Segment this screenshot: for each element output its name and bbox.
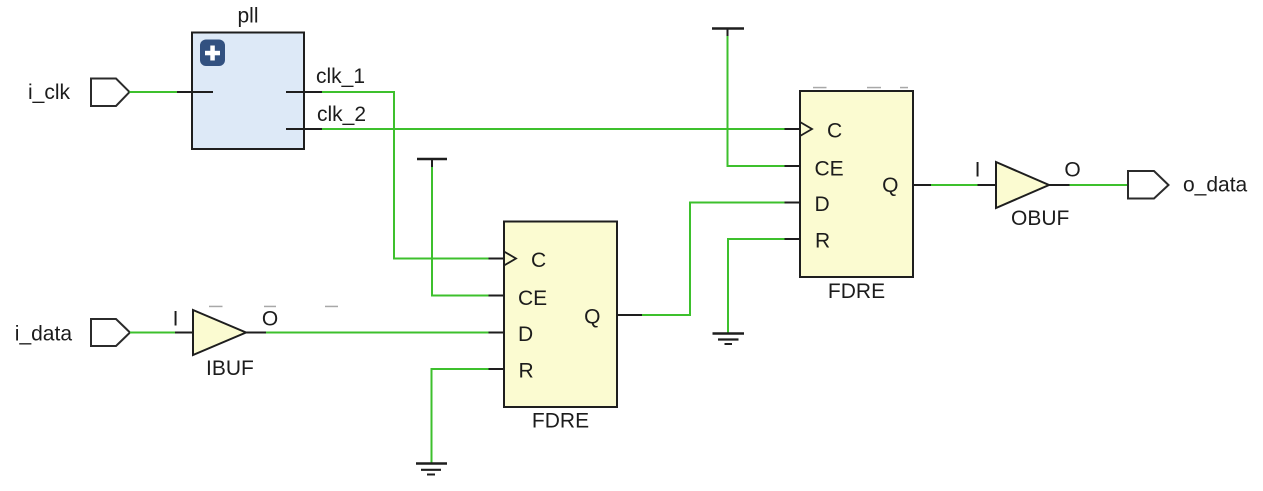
svg-text:i_data: i_data [15,323,73,346]
svg-text:pll: pll [237,5,258,28]
svg-text:CE: CE [518,287,547,310]
OBUF pin O stub [1049,184,1070,186]
svg-text:clk_2: clk_2 [317,103,366,126]
pll pin clk_1 stub [286,91,322,93]
svg-text:C: C [531,249,546,272]
svg-text:CE: CE [815,158,844,181]
svg-text:FDRE: FDRE [828,280,885,303]
wire FDRE1 R to ground [432,369,489,463]
FDRE2 clock chevron [800,122,812,136]
FDRE2 pin Q stub [913,184,931,186]
wire i_clk to pll [130,91,178,93]
IBUF pin O stub [246,332,266,334]
FDRE1 pin D stub [489,332,505,334]
flip-flop FDRE1 box [504,222,617,408]
faint dashes above IBUF [209,306,338,308]
FDRE2 pin R stub [785,238,801,240]
svg-text:OBUF: OBUF [1011,207,1069,230]
input port i_clk [91,79,130,107]
input port i_data [91,319,130,346]
buffer IBUF [193,310,246,355]
FDRE2 pin D stub [785,202,801,204]
svg-text:R: R [519,360,534,383]
pll expand + icon [200,40,225,67]
FDRE1 pin R stub [489,368,505,370]
wire FDRE1 Q to FDRE2 D [642,203,785,316]
wire VCC to FDRE2 CE [728,36,785,166]
FDRE1 pin C stub [489,258,505,260]
ground GND2 (const0) [713,334,745,345]
wire OBUF O to o_data port [1070,184,1129,186]
svg-text:I: I [173,308,179,331]
net clk_2 wire to FDRE2 C [322,128,785,130]
svg-text:R: R [815,230,830,253]
FDRE2 pin C stub [785,128,801,130]
FDRE1 pin CE stub [489,295,505,297]
FDRE1 pin Q stub [617,314,642,316]
OBUF pin I stub [978,184,997,186]
svg-text:O: O [262,308,278,331]
FDRE2 pin CE stub [785,165,801,167]
svg-text:D: D [815,193,830,216]
wire FDRE2 R to ground [728,239,785,333]
pll block U_pll [192,33,304,150]
flip-flop FDRE2 box [800,91,913,277]
faint dashes above FDRE2 [813,87,908,89]
svg-text:i_clk: i_clk [28,81,71,104]
IBUF pin I stub [175,332,193,334]
svg-text:o_data: o_data [1183,174,1248,197]
pll input pin stub [177,91,213,93]
wire FDRE2 Q to OBUF [931,184,978,186]
power VCC symbol mid (const1) [417,159,447,167]
svg-text:FDRE: FDRE [532,410,589,433]
buffer OBUF [996,162,1049,208]
ground GND1 (const0) [416,464,447,475]
FDRE1 clock chevron [504,252,516,266]
svg-text:D: D [518,323,533,346]
svg-text:C: C [827,120,842,143]
svg-text:Q: Q [882,174,898,197]
wire VCC to FDRE1 CE [432,167,489,296]
output port o_data [1128,171,1169,199]
net clk_1 wire to FDRE1 C [322,92,489,259]
svg-text:O: O [1064,159,1080,182]
svg-text:IBUF: IBUF [206,357,254,380]
pll pin clk_2 stub [286,128,322,130]
wire IBUF O to FDRE1 D [266,332,489,334]
svg-text:I: I [975,159,981,182]
svg-text:clk_1: clk_1 [316,65,365,88]
svg-text:Q: Q [584,306,600,329]
wire i_data to IBUF [130,332,175,334]
power VCC symbol top (const1) [712,29,744,37]
